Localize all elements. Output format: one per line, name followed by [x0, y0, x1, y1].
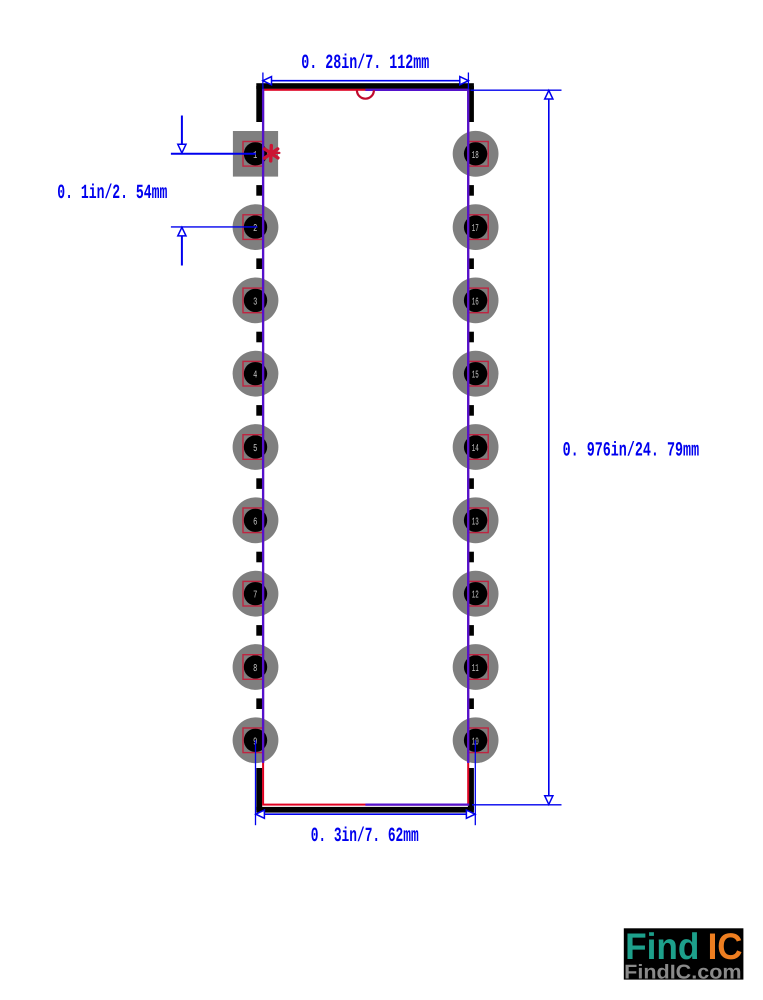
dimension 0.28in extension line left (blue) — [262, 73, 264, 90]
pad 14 — [453, 424, 499, 470]
pad 6 — [233, 497, 279, 543]
pad 5 — [233, 424, 279, 470]
FindIC logo background (black) — [624, 928, 744, 979]
package outline right side dash 7 (black) — [468, 625, 474, 636]
svg-text:1: 1 — [253, 151, 257, 163]
pad 16 — [453, 278, 499, 324]
package outline left side corner segment bottom (black) — [256, 768, 262, 810]
assembly outline rectangle (red) — [263, 90, 468, 805]
svg-text:0. 28in/7. 112mm: 0. 28in/7. 112mm — [301, 53, 429, 76]
pin-1 marker asterisk (red) — [265, 146, 280, 161]
pin-1 end notch arc (dark red) — [357, 90, 374, 99]
pad 13 — [453, 497, 499, 543]
dimension 0.1in/2.54mm reference line pin2 (blue) — [171, 226, 258, 228]
svg-text:0. 976in/24. 79mm: 0. 976in/24. 79mm — [563, 441, 700, 464]
pad 17 — [453, 204, 499, 250]
dimension 0.976in extension line top (blue) — [471, 89, 562, 91]
package outline left side dash 1 (black) — [256, 185, 262, 196]
package outline right side dash 2 (black) — [468, 258, 474, 269]
pad 12 — [453, 571, 499, 617]
pad 8 — [233, 644, 279, 690]
package outline bottom edge (black) — [256, 807, 474, 813]
pad 15 — [453, 351, 499, 397]
dimension 0.3in/7.62mm line (blue) — [256, 810, 476, 818]
package outline left side dash 5 (black) — [256, 478, 262, 489]
package outline left side dash 3 (black) — [256, 332, 262, 343]
package outline top edge (black) — [256, 83, 474, 89]
package outline left side dash 8 (black) — [256, 698, 262, 709]
dimension 0.1in/2.54mm reference line pin1 (blue) — [171, 153, 256, 155]
package outline right side dash 1 (black) — [468, 185, 474, 196]
svg-text:13: 13 — [472, 517, 479, 529]
package outline left side dash 7 (black) — [256, 625, 262, 636]
svg-text:18: 18 — [472, 151, 479, 163]
dimension 0.3in extension line right (blue) — [474, 740, 476, 825]
svg-text:11: 11 — [472, 664, 479, 676]
svg-text:0. 3in/7. 62mm: 0. 3in/7. 62mm — [311, 826, 419, 849]
dimension 0.976in extension line bottom (blue) — [472, 804, 562, 806]
courtyard left side (purple) — [262, 89, 264, 763]
svg-text:3: 3 — [253, 297, 257, 309]
svg-text:2: 2 — [253, 224, 257, 236]
dimension 0.1in arrow up (blue) — [178, 227, 186, 236]
pad 10 — [453, 717, 499, 763]
svg-text:0. 1in/2. 54mm: 0. 1in/2. 54mm — [57, 183, 167, 206]
pad 3 — [233, 278, 279, 324]
pad 7 — [233, 571, 279, 617]
package outline left side dash 4 (black) — [256, 405, 262, 416]
pad 1 — [233, 131, 278, 177]
svg-text:7: 7 — [253, 590, 257, 602]
package outline right side corner segment top (black) — [468, 86, 474, 122]
courtyard top edge right half (purple) — [365, 89, 469, 91]
pad 2 — [233, 204, 279, 250]
package outline right side dash 3 (black) — [468, 332, 474, 343]
dimension 0.28in/7.112mm line (blue) — [263, 77, 469, 85]
svg-text:6: 6 — [253, 517, 257, 529]
package outline left side corner segment top (black) — [256, 86, 262, 122]
svg-text:15: 15 — [472, 370, 479, 382]
package outline right side dash 6 (black) — [468, 552, 474, 563]
pad 9 — [233, 717, 279, 763]
package outline right side dash 5 (black) — [468, 478, 474, 489]
package outline left side dash 2 (black) — [256, 258, 262, 269]
svg-text:5: 5 — [253, 444, 257, 456]
svg-text:FindIC.com: FindIC.com — [624, 961, 741, 983]
svg-text:12: 12 — [472, 590, 479, 602]
courtyard bottom edge right half (purple) — [365, 803, 469, 805]
package outline left side dash 6 (black) — [256, 552, 262, 563]
dimension 0.1in vertical line lower (blue) — [181, 228, 183, 266]
dimension 0.3in extension line left (blue) — [255, 740, 257, 825]
package outline right side dash 4 (black) — [468, 405, 474, 416]
dimension 0.1in vertical line upper (blue) — [181, 116, 183, 153]
package outline right side dash 8 (black) — [468, 698, 474, 709]
dimension 0.976in/24.79mm line (blue) — [545, 90, 553, 804]
pad 18 — [453, 131, 499, 177]
courtyard right side (purple) — [467, 89, 469, 763]
svg-text:14: 14 — [472, 444, 479, 456]
pad 11 — [453, 644, 499, 690]
svg-text:4: 4 — [253, 370, 257, 382]
package outline right side corner segment bottom (black) — [468, 768, 474, 810]
svg-text:17: 17 — [472, 224, 479, 236]
svg-text:16: 16 — [472, 297, 479, 309]
pad 4 — [233, 351, 279, 397]
dimension 0.28in extension line right (blue) — [467, 73, 469, 90]
svg-text:8: 8 — [253, 664, 257, 676]
dimension 0.1in arrow down (blue) — [178, 144, 186, 153]
